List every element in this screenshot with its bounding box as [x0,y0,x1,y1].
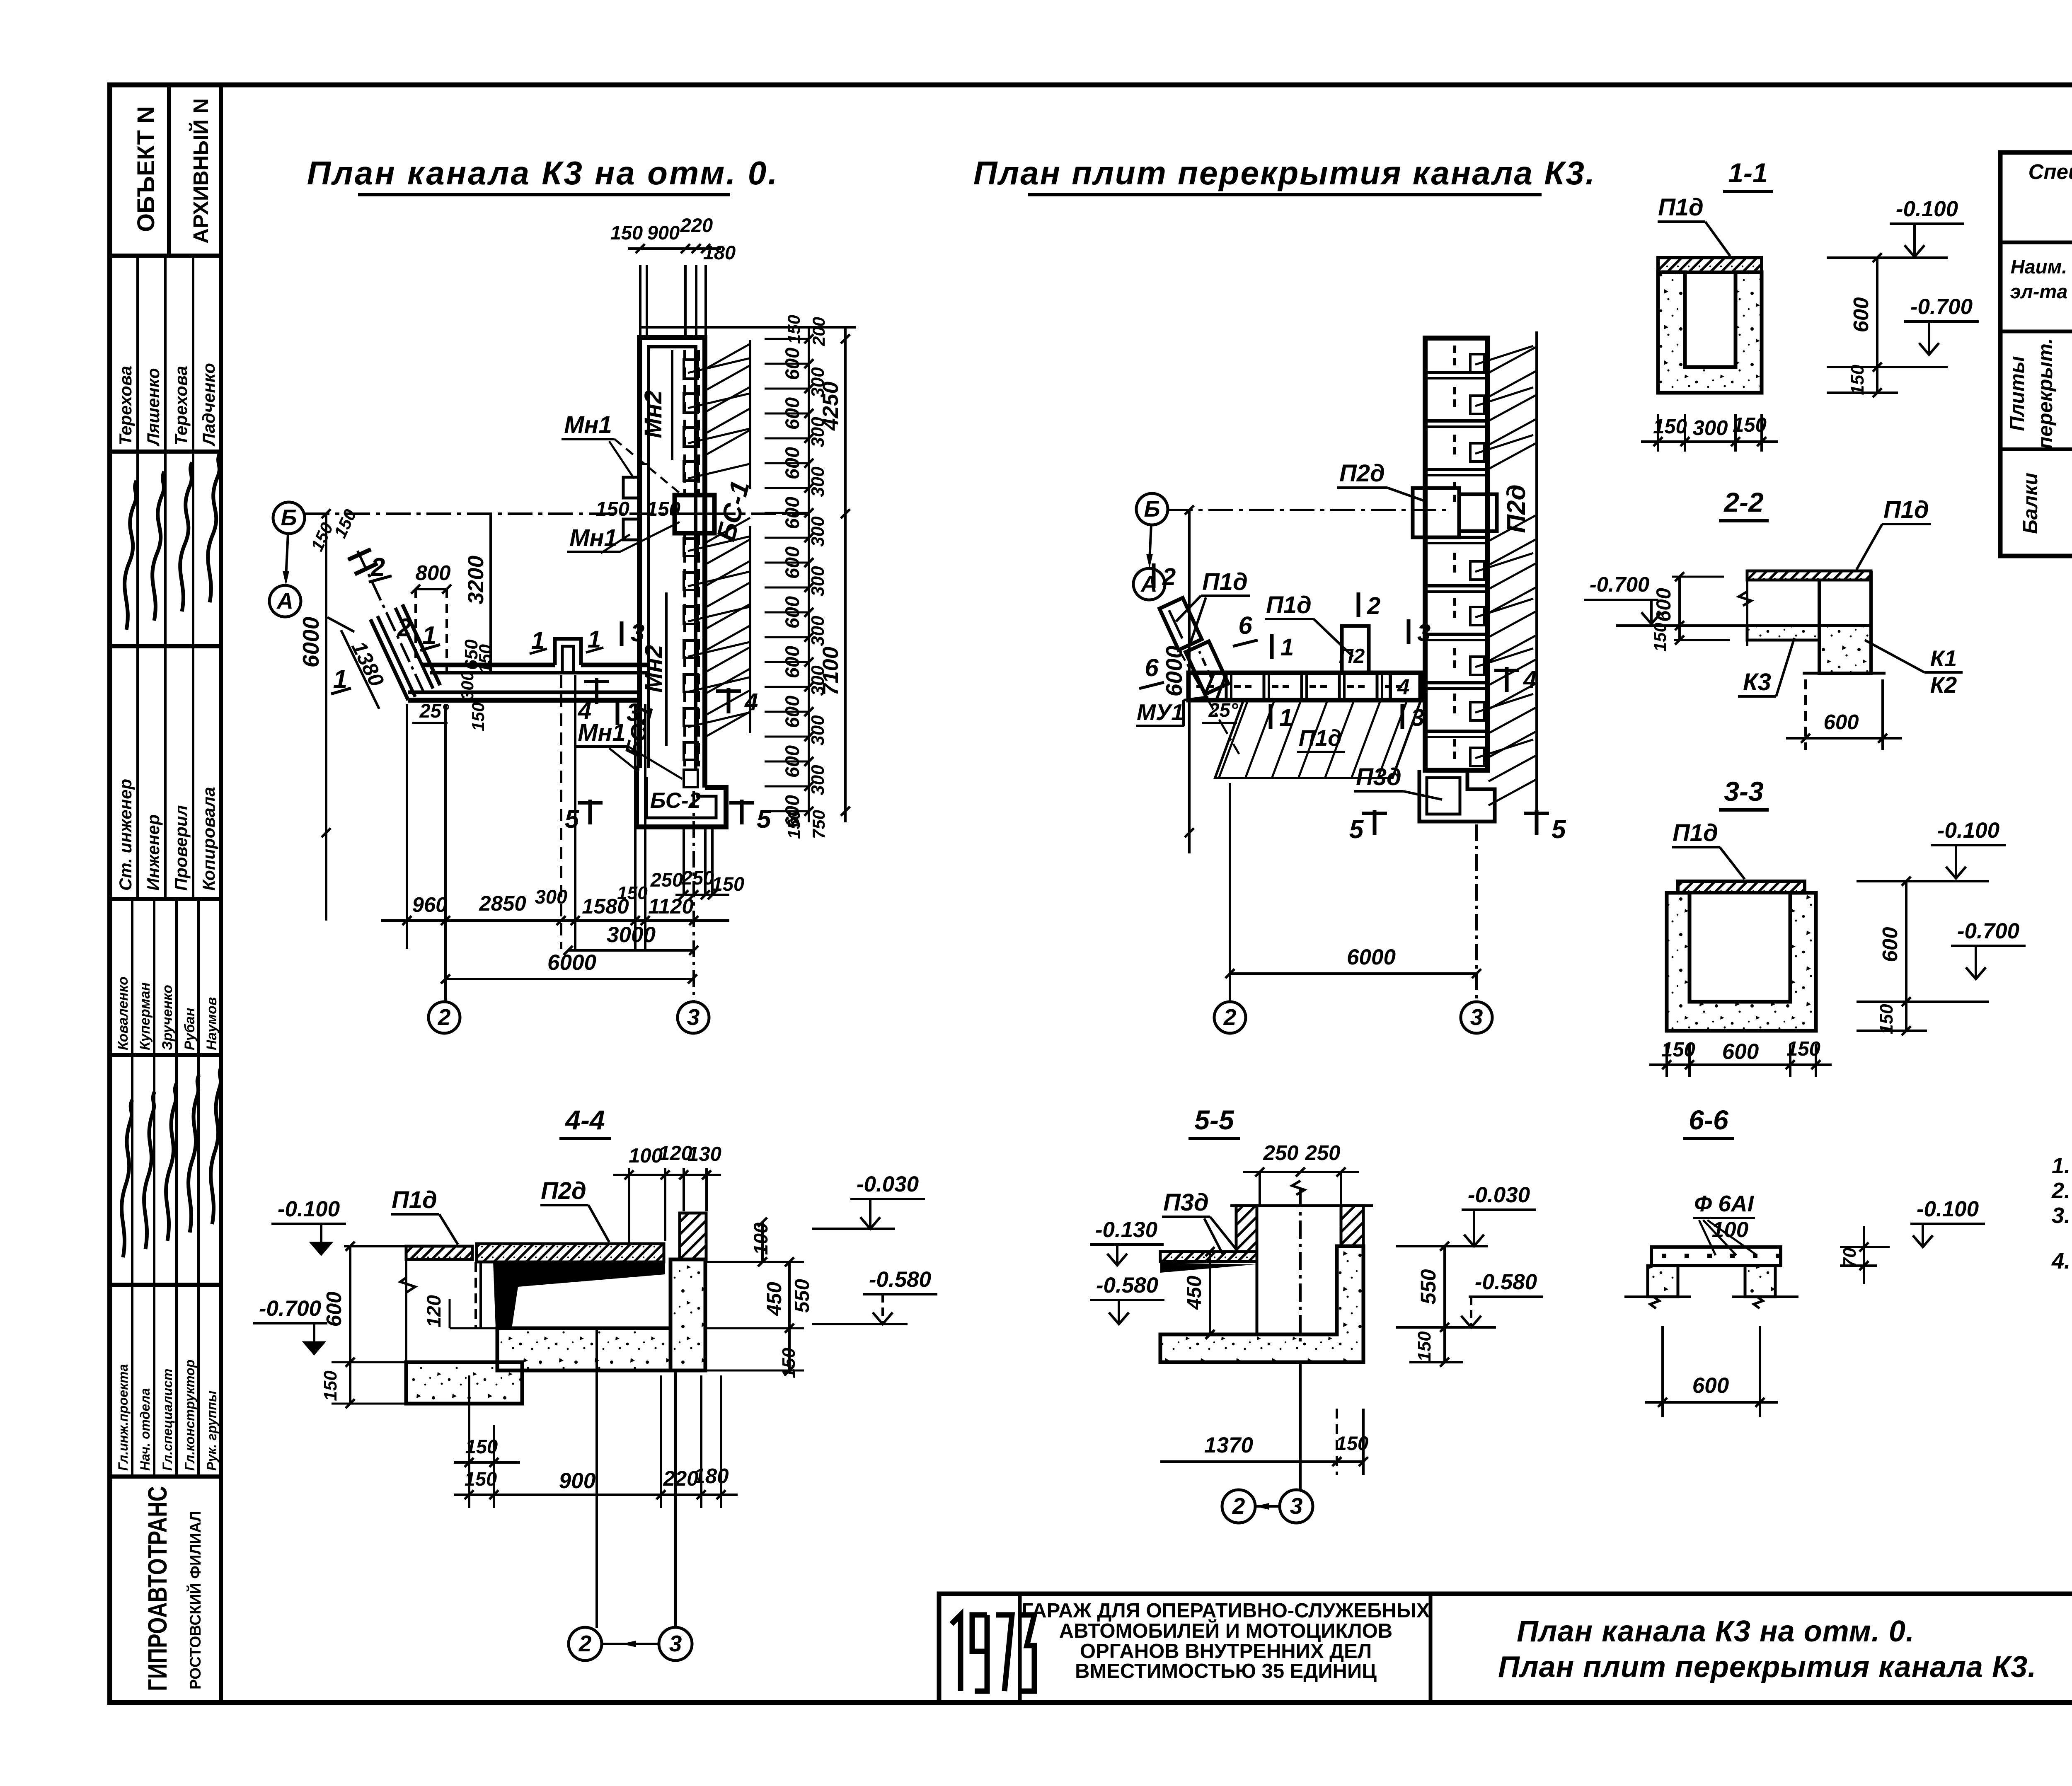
svg-text:П1д: П1д [1658,194,1704,221]
dim chain row1 plan1 960 2850 300 1580 150 1120 [381,919,729,922]
svg-text:П3д: П3д [1163,1189,1209,1216]
svg-text:А: А [276,588,293,614]
section 4-4 dims 600 150 left [349,1246,351,1404]
leader lines plates plan2 [1475,346,1533,365]
svg-text:150: 150 [465,1468,497,1490]
svg-text:Копировала: Копировала [199,787,218,891]
svg-text:3200: 3200 [464,556,488,604]
svg-text:800: 800 [415,561,450,585]
svg-text:2: 2 [1223,1004,1237,1030]
hatch boundary plan2 [1535,331,1538,824]
svg-text:-0.130: -0.130 [1095,1218,1157,1242]
P3d bottom slab plan2 [1419,770,1495,822]
svg-text:600: 600 [1878,927,1902,962]
axis arrow plan2 [1150,525,1151,560]
svg-text:900: 900 [647,222,680,244]
diagonal channel arm plan1 [370,619,408,700]
svg-text:150: 150 [712,873,744,895]
svg-text:6-6: 6-6 [1689,1104,1729,1135]
svg-text:750: 750 [809,810,828,839]
svg-text:1. Общие примечания см. лис: 1. Общие примечания см. лист КС-8; [2052,1153,2072,1178]
hatch right of strip plan2 [1489,347,1536,373]
svg-text:150: 150 [610,222,643,244]
svg-text:100: 100 [1712,1218,1748,1242]
svg-text:250: 250 [1305,1141,1340,1165]
svg-text:Терехова: Терехова [171,366,191,445]
svg-text:Ст. инженер: Ст. инженер [116,779,135,891]
svg-text:2: 2 [438,1004,451,1030]
svg-text:-0.030: -0.030 [1468,1183,1530,1207]
svg-text:Рубан: Рубан [182,1008,198,1051]
svg-text:3. Расход бетона на канал: 3. Расход бетона на канал К3 см. [2052,1203,2072,1228]
axis circle 2 plan2 [1214,1002,1246,1033]
hatch boundary line plan1 [749,340,751,489]
MU1 monolith piece plan2 [1205,673,1227,700]
section 4-4 axis circles 2 3 [595,1328,598,1628]
svg-text:150: 150 [1414,1331,1435,1362]
svg-text:4: 4 [1523,666,1537,693]
axis arrow between B and A plan1 [286,534,288,577]
svg-text:Терехова: Терехова [116,366,135,445]
svg-text:-0.700: -0.700 [259,1296,321,1321]
svg-text:Наим.: Наим. [2011,256,2067,278]
svg-text:Проверил: Проверил [171,805,191,891]
section 6-6 slab with rebar [1651,1247,1781,1266]
svg-text:5: 5 [757,805,772,834]
hatch lines right of canal plan1 lower [706,518,750,543]
svg-text:П1д: П1д [1673,819,1718,846]
ladder ticks and 600/300 labels plan1 [804,334,813,343]
svg-text:150: 150 [1650,623,1670,652]
axis circle 3 plan1 [678,1002,709,1033]
svg-text:П1д: П1д [1883,496,1929,523]
section 4-4 right wall concrete [670,1259,705,1370]
section 5-5 bottom dim 1370 150 [1160,1460,1363,1463]
section 2-2 dims 600 150 left [1678,577,1681,640]
dim 800 plan1 [416,588,447,590]
canal K3 plan inner wall [649,347,696,771]
svg-text:П1д: П1д [1266,592,1312,619]
svg-text:-0.030: -0.030 [857,1172,919,1196]
leader lines from plates to hatch plan1 [688,358,749,373]
svg-text:960: 960 [412,893,447,916]
svg-text:3: 3 [631,619,644,647]
svg-text:2. Канал замаркирован на ли: 2. Канал замаркирован на листе КС-8; [2051,1178,2072,1203]
section 5-5 left wall lines [1256,1252,1259,1334]
svg-text:Мн1: Мн1 [564,411,612,438]
section 5-5 hatched wall stubs [1236,1206,1257,1252]
svg-text:150: 150 [475,644,495,673]
section 5-5 thin slab P3d left [1160,1252,1257,1262]
svg-text:-0.580: -0.580 [869,1267,931,1292]
svg-text:180: 180 [693,1464,729,1488]
section 2-2 top slab [1747,571,1871,580]
section 1-1 top slab hatched [1658,258,1762,272]
svg-text:Ляшенко: Ляшенко [143,368,163,447]
svg-text:П2д: П2д [541,1177,586,1204]
svg-text:150: 150 [1847,365,1868,395]
section 2-2 right wall [1869,571,1873,673]
svg-text:150: 150 [1786,1038,1820,1060]
section 4-4 black wedge under slab [493,1262,665,1328]
svg-text:550: 550 [791,1279,813,1313]
section 2-2 bottom K3 floor strip [1747,626,1819,640]
svg-text:П1д: П1д [1202,568,1248,595]
svg-text:100: 100 [750,1223,772,1255]
svg-text:Инженер: Инженер [143,814,163,891]
bottom witness dashdot axis3 plan2 [1475,824,1478,1003]
svg-text:эл-та: эл-та [2010,280,2068,302]
svg-text:-0.100: -0.100 [1937,818,1999,843]
svg-text:600: 600 [1849,297,1873,332]
svg-text:Гл.инж.проекта: Гл.инж.проекта [116,1364,131,1471]
svg-text:3: 3 [1470,1004,1483,1030]
names row 1 Terekhova/Lyashenko/Terekhova/Ladchenko [136,256,139,452]
svg-text:6000: 6000 [1347,945,1396,969]
svg-text:4. Расход бетона на монолит: 4. Расход бетона на монолитный [2051,1249,2072,1274]
svg-text:3: 3 [669,1631,682,1656]
svg-text:Мн2: Мн2 [640,390,667,438]
svg-text:600: 600 [1653,588,1675,622]
horizontal channel bottom wall plan1 [408,691,639,694]
svg-text:2: 2 [1232,1493,1245,1519]
ladder line2 ticks plan1 [841,334,850,343]
svg-text:1120: 1120 [648,894,694,918]
flag marks plan2 row [1270,634,1274,659]
slab strip outer rect plan2 [1425,338,1488,770]
dim 6000 plan1 [445,978,692,980]
svg-text:1-1: 1-1 [1728,157,1767,188]
svg-text:ОРГАНОВ ВНУТРЕННИХ ДЕЛ: ОРГАНОВ ВНУТРЕННИХ ДЕЛ [1080,1640,1372,1663]
section 4 mark right plan1 [727,688,731,713]
svg-text:3: 3 [1290,1493,1303,1519]
axis slab block plan2 [1413,488,1459,537]
spec table 1 frame [2000,152,2072,556]
diagonal slabs plan2 [1186,641,1228,694]
svg-text:150: 150 [320,1370,341,1401]
svg-text:4: 4 [578,697,591,724]
svg-text:Ладченко: Ладченко [199,363,218,447]
svg-text:600: 600 [1692,1373,1729,1398]
section 6-6 dim 600 bottom [1661,1326,1664,1417]
slab 4 flag plan2 [1389,675,1392,698]
svg-text:450: 450 [1183,1276,1205,1310]
axis circle 2 plan1 [428,1002,460,1033]
left 6000 dim line plan2 [1188,510,1191,853]
svg-text:600: 600 [322,1291,346,1327]
hatched region below slab row plan2 [1215,701,1421,778]
svg-text:5: 5 [565,805,580,834]
svg-text:-0.100: -0.100 [1896,197,1958,221]
svg-text:План плит перекрытия канала: План плит перекрытия канала К3. [1498,1651,2036,1684]
axis B dash-dot plan2 [1168,509,1450,511]
svg-text:120: 120 [423,1295,445,1327]
svg-text:-0.700: -0.700 [1910,295,1973,319]
svg-text:2-2: 2-2 [1723,487,1764,517]
section 1-1 bottom dims 150 300 150 [1657,414,1659,452]
section 4-4 slab P1d [406,1246,472,1259]
svg-text:150: 150 [468,702,488,731]
wall niche left upper [623,477,640,498]
svg-text:3: 3 [1417,619,1431,646]
section 3-3 bottom dims 150 600 150 [1665,1044,1668,1077]
names row 2 Kovalenko/Kuperman/Zaychenko/Ruban/Naumov [131,899,133,1055]
section 4-4 dashed void edge [474,1262,477,1328]
svg-text:5-5: 5-5 [1194,1104,1234,1135]
svg-text:ВМЕСТИМОСТЬЮ 35 ЕДИНИЦ: ВМЕСТИМОСТЬЮ 35 ЕДИНИЦ [1075,1660,1377,1682]
svg-text:300: 300 [808,516,828,547]
svg-text:300: 300 [808,715,828,746]
svg-text:250: 250 [650,869,683,891]
svg-text:300: 300 [808,466,828,497]
svg-text:перекрыт.: перекрыт. [2034,338,2057,449]
svg-text:5: 5 [1552,815,1566,844]
central block BS-1 on axis [675,495,714,533]
svg-text:2: 2 [1367,592,1380,619]
T4 mark plan2 [1505,667,1509,692]
svg-text:-0.580: -0.580 [1475,1270,1537,1294]
svg-text:РОСТОВСКИЙ ФИЛИАЛ: РОСТОВСКИЙ ФИЛИАЛ [186,1511,204,1689]
svg-text:6000: 6000 [547,950,596,975]
section 5-5 ground line [1230,1204,1373,1207]
svg-text:Коваленко: Коваленко [115,976,131,1050]
svg-text:150: 150 [465,1436,498,1457]
svg-text:2: 2 [579,1631,592,1656]
section 4-4 slab P2d [477,1244,664,1262]
svg-text:150: 150 [617,883,648,903]
svg-text:-0.580: -0.580 [1096,1273,1158,1298]
svg-text:180: 180 [703,242,736,263]
section 4-4 bottom dims 150 900 220 180 [468,1375,470,1508]
svg-text:План канала К3 на отм. 0.: План канала К3 на отм. 0. [307,155,779,191]
svg-text:300: 300 [808,566,828,597]
svg-text:ГАРАЖ ДЛЯ ОПЕРАТИВНО-СЛУЖЕБН: ГАРАЖ ДЛЯ ОПЕРАТИВНО-СЛУЖЕБНЫХ [1022,1600,1430,1622]
svg-text:К1: К1 [1930,645,1957,671]
svg-text:300: 300 [808,765,828,795]
axis B dash-dot line plan1 [305,512,808,515]
svg-text:150: 150 [595,498,629,520]
axis circle B plan1 [273,502,305,534]
svg-text:1: 1 [1280,634,1294,661]
svg-text:-0.100: -0.100 [278,1197,340,1221]
section 6-6 ground lines [1624,1295,1691,1298]
svg-text:План канала К3 на отм. 0.: План канала К3 на отм. 0. [1517,1615,1915,1648]
slab joints plan2 [1425,371,1488,374]
svg-text:25°: 25° [1208,699,1238,721]
axis circle 3 plan2 [1461,1002,1492,1033]
svg-text:150: 150 [784,810,804,839]
svg-text:Нач. отдела: Нач. отдела [138,1388,152,1471]
svg-text:2: 2 [397,614,411,642]
svg-text:3000: 3000 [607,923,656,947]
section 3-3 top slab hatched [1678,881,1805,893]
svg-text:Наумов: Наумов [204,997,220,1050]
svg-text:150: 150 [1661,1039,1695,1061]
svg-text:200: 200 [809,317,828,346]
section 2-2 left edge with break [1746,571,1748,646]
svg-text:300: 300 [457,671,477,700]
svg-text:П2д: П2д [1502,484,1531,533]
dimension ladder line 1 plan1 [808,327,810,822]
svg-text:План плит перекрытия канала: План плит перекрытия канала К3. [973,155,1596,191]
top witness lines plan1 [639,265,641,338]
svg-text:600: 600 [1823,710,1859,734]
svg-text:Б: Б [1144,496,1160,522]
svg-text:7100: 7100 [818,647,843,696]
svg-text:4-4: 4-4 [564,1104,605,1135]
svg-text:150: 150 [1653,416,1687,438]
ladder top line [640,326,856,329]
svg-text:70: 70 [1840,1247,1860,1268]
svg-text:300: 300 [1692,416,1728,440]
svg-text:250: 250 [1263,1141,1298,1165]
svg-text:Рук. группы: Рук. группы [204,1391,219,1471]
axis circle A plan2 [1133,568,1165,600]
svg-text:Балки: Балки [2019,473,2042,534]
svg-text:Ф 6АI: Ф 6АI [1694,1191,1755,1216]
slab inner dashes plan2 [1453,346,1456,367]
top dimension 150 900 220 180 plan1 [628,247,721,250]
svg-text:Плиты: Плиты [2006,356,2028,431]
title block cell lines [1018,1594,1022,1703]
dim 3000 plan1 [568,949,694,952]
svg-text:900: 900 [559,1469,595,1493]
axis circle B plan2 [1136,493,1168,525]
svg-text:-0.700: -0.700 [1590,573,1650,596]
canal K3 plan outer wall [639,338,705,788]
svg-text:АРХИВНЫЙ N: АРХИВНЫЙ N [189,98,213,244]
svg-text:П1д: П1д [392,1187,437,1213]
dim 3200 vertical plan1 [489,514,492,673]
horizontal channel top wall plan1 [423,663,555,667]
svg-text:2: 2 [1162,563,1176,590]
section 1-1 dim 600 150 right [1876,258,1878,393]
svg-text:3: 3 [627,698,640,726]
canal K3 bottom foot BS-2 seat [637,768,726,827]
section 2-2 middle wall [1818,580,1821,626]
section 3-3 dim 600 150 right [1905,881,1907,1031]
svg-text:450: 450 [763,1282,786,1316]
horizontal slab row plan2 [1188,673,1421,700]
svg-text:150: 150 [646,498,680,520]
svg-text:100: 100 [629,1145,663,1167]
left 6000 dimension line plan1 [325,514,327,921]
svg-text:6000: 6000 [1161,645,1187,696]
section 1-1 concrete U body [1658,272,1762,393]
section 3-3 concrete U body [1667,893,1816,1031]
svg-text:Б: Б [281,505,297,530]
hatch lines right of canal plan1 upper [706,344,750,369]
svg-text:3: 3 [1411,704,1424,731]
svg-text:К2: К2 [1930,672,1957,698]
dim chain 250 250 150 plan1 [675,894,729,896]
section 5-5 black wedge [1160,1263,1256,1273]
flag 3 marks plan1 [620,621,624,646]
svg-text:МУ1: МУ1 [1137,699,1184,725]
svg-text:5: 5 [1349,815,1364,844]
svg-text:ГИПРОАВТОТРАНС: ГИПРОАВТОТРАНС [143,1486,172,1691]
year 1973 [951,1615,961,1691]
dim 6000 plan2 [1230,972,1477,975]
svg-text:6000: 6000 [298,616,324,667]
svg-text:Куперман: Куперман [137,982,153,1050]
svg-text:150: 150 [1733,414,1767,436]
Mn2 label upper plan1 [671,350,673,460]
section 2-2 right block K1K2 [1819,626,1871,673]
spec table 1 group split line [2000,447,2072,451]
svg-text:1: 1 [1279,704,1293,731]
svg-text:К3: К3 [1743,669,1771,696]
section 4-4 left foundation step concrete [406,1362,522,1404]
svg-text:300: 300 [535,886,567,908]
svg-text:250: 250 [681,867,714,889]
svg-text:1370: 1370 [1204,1433,1253,1457]
section 5-5 centerline [1299,1189,1302,1342]
signatures row 1 [136,452,139,646]
dim 1380 along arm [341,630,379,709]
closure plates Mn2 in canal plan [684,360,698,379]
svg-text:-0.700: -0.700 [1957,919,2019,943]
svg-text:600: 600 [1722,1039,1759,1064]
section 2 cut marks on arm [355,563,378,574]
section 4-4 bottom slab concrete [497,1328,670,1370]
section 6-6 legs stippled [1648,1266,1678,1297]
svg-text:3: 3 [687,1004,700,1030]
section 4-4 left break line [400,1259,415,1362]
svg-text:4250: 4250 [818,382,843,431]
svg-text:550: 550 [1416,1269,1440,1304]
P2 upright slab plan2 [1342,626,1369,673]
section 6-6 dim 70 right [1840,1246,1890,1248]
section 2-2 dim 600 bottom [1804,679,1807,750]
title block outer [939,1594,2072,1703]
channel notch upward [555,639,581,665]
svg-text:150: 150 [784,315,804,344]
section 4-4 hatched wall stub top right [680,1213,706,1259]
slab row dashes plan2 [1196,685,1218,688]
section 5 marks plan1 [588,800,592,824]
roles row 2 Gl.inzh.proekta etc [131,1285,133,1477]
svg-text:6: 6 [1145,654,1159,682]
svg-text:3-3: 3-3 [1724,776,1763,807]
embedded plates dashed rects plan2 [1470,354,1484,372]
svg-text:ОБЪЕКТ N: ОБЪЕКТ N [133,106,160,232]
svg-text:П1д: П1д [1299,725,1342,751]
svg-text:Спецификация сборных железоб: Спецификация сборных железобетонных [2028,160,2072,184]
svg-text:300: 300 [808,616,828,646]
section5 marks plan2 [1373,810,1377,835]
Mn2 label lower plan1 [665,592,668,746]
svg-text:Зрученко: Зрученко [160,985,175,1050]
roles row 1 St.inzhener/Inzhener/Proveril/Kopirovala [136,646,139,899]
section 5-5 concrete U body [1160,1246,1363,1362]
signatures row 2 [131,1055,133,1285]
bottom witness lines plan1 [406,704,408,949]
svg-text:6: 6 [1238,611,1252,639]
section 5-5 axis circles [1299,1362,1302,1491]
svg-text:2850: 2850 [479,892,526,915]
svg-text:220: 220 [680,214,713,236]
svg-text:П2д: П2д [1339,460,1385,487]
svg-text:-0.100: -0.100 [1917,1197,1979,1221]
svg-text:АВТОМОБИЛЕЙ И МОТОЦИКЛОВ: АВТОМОБИЛЕЙ И МОТОЦИКЛОВ [1059,1619,1392,1642]
svg-text:Мн2: Мн2 [640,645,667,693]
spec table 1 header bottom line [2000,330,2072,334]
diagonal arm centerline [356,546,424,693]
beam BS-1 dashed lines in canal [683,350,686,493]
svg-text:Гл.конструктор: Гл.конструктор [182,1360,197,1471]
axis circle A plan1 [269,585,301,617]
